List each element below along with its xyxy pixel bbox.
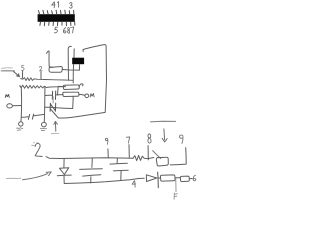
component box B2 bbox=[160, 175, 175, 181]
IC U1 bottom pin ticks bbox=[40, 22, 75, 26]
wire vertical A with hook (from y48 to row1) bbox=[68, 46, 71, 80]
capacitor C4 bottom plate bbox=[83, 175, 101, 176]
zener diode D1 triangle down bbox=[60, 168, 69, 175]
resistor R1 zigzag row1 and wire to vertical x73 bbox=[21, 78, 73, 81]
vertical from X1 lead down to base wire bbox=[72, 96, 75, 108]
wire from RV1 right to node under black component bbox=[62, 69, 79, 72]
tiny scribble text top-left bbox=[2, 67, 13, 70]
capacitor C2 tilted plates bbox=[28, 114, 33, 119]
overline segment bbox=[151, 120, 176, 123]
resistor R4 box lower bbox=[63, 92, 79, 96]
wire B3 to label 6 bbox=[189, 178, 192, 180]
down arrow annotation bbox=[162, 129, 167, 142]
input arrow to resistor R-row1 bbox=[13, 71, 19, 76]
lead from label 5 to row1 bbox=[21, 71, 23, 78]
emitter wire Q1 to loop bottom bbox=[50, 109, 58, 118]
transistor Q1 lead from R4 bottom bbox=[52, 97, 54, 103]
squiggle under C2 bbox=[40, 128, 46, 131]
component box B3 bbox=[180, 176, 189, 182]
wire vertical B to cap left plate bbox=[22, 116, 28, 119]
pin number 8 bottom (hand-drawn digit 8) bbox=[68, 28, 70, 34]
curved arrow to zener D1 bbox=[23, 172, 52, 180]
label M (left motor) bbox=[5, 95, 9, 98]
pin label 9 left (hand-drawn digit 9) bbox=[105, 138, 108, 144]
wire short vertical to black component top bbox=[73, 49, 75, 58]
top rail wire bbox=[46, 157, 133, 159]
curl from R3 right end bbox=[79, 84, 83, 87]
component box B1 bbox=[156, 157, 168, 166]
node 1 riser (flag) into box RV1 bbox=[47, 51, 53, 67]
resistor R5 zigzag in top rail bbox=[133, 155, 154, 160]
resistor R2 zigzag row2 bbox=[20, 85, 66, 88]
capacitor C3 plates (horizontal, near boxes) bbox=[52, 91, 55, 99]
lead from X1 bottom right to wire end bbox=[78, 64, 80, 70]
pin label 7 (hand-drawn digit 7) bbox=[126, 137, 129, 143]
terminal circle M left bbox=[7, 104, 13, 108]
wire vertical C area to C3 left bbox=[45, 94, 52, 96]
capacitor C4 stem to bottom rail bbox=[90, 177, 92, 183]
IC U1 top pin ticks bbox=[39, 10, 74, 14]
pin number 3 top (hand-drawn digit 3) bbox=[70, 3, 73, 9]
capacitor C5 bottom plate bbox=[114, 169, 129, 172]
up arrow annotation bbox=[54, 121, 57, 131]
lead from 9 to rail bbox=[107, 149, 109, 158]
IC U1 black bar body bbox=[38, 14, 75, 22]
component X1 black rectangle bbox=[72, 58, 84, 64]
zener diode D1 cathode bar bbox=[57, 174, 71, 177]
pin label 9 right (hand-drawn digit 9) bbox=[180, 135, 183, 143]
label 2 (hand-drawn digit 2) bbox=[39, 66, 42, 71]
label 5 (hand-drawn digit 5) bbox=[22, 65, 25, 70]
capacitor C5 top plate bbox=[110, 162, 127, 165]
squiggle under C1 bbox=[17, 128, 23, 130]
wire M to vertical B bbox=[12, 105, 21, 107]
tiny scribble text bottom-left bbox=[6, 177, 21, 180]
label 6 right end (hand-drawn digit 6) bbox=[193, 175, 196, 181]
terminal circle C2 bbox=[42, 122, 47, 126]
label F under stem bbox=[174, 193, 177, 199]
label M right motor bbox=[90, 94, 94, 98]
wire vertical B (row2 left end down to terminal) bbox=[20, 86, 21, 122]
wire B2 to B3 with stem down bbox=[175, 177, 180, 179]
bottom rail wire bbox=[64, 178, 144, 183]
diode D2 triangle bbox=[146, 175, 156, 182]
pin label 8 (hand-drawn digit 8) bbox=[148, 134, 151, 143]
pin number 6 bottom (hand-drawn digit 6) bbox=[63, 28, 66, 33]
stem D1 to bottom rail bbox=[63, 176, 65, 184]
pin number 5 bottom (hand-drawn digit 5) bbox=[54, 27, 57, 33]
big loop rectangle (top edge, right edge, bottom edge) bbox=[59, 45, 107, 118]
capacitor C4 top plate bbox=[80, 168, 103, 171]
handwritten big 2 bbox=[35, 143, 42, 156]
capacitor C5 stem to bottom rail bbox=[120, 171, 122, 180]
resistor R3 box upper bbox=[63, 85, 79, 90]
stem down from wire bbox=[175, 179, 177, 192]
wire R4 right to motor M2 circle bbox=[79, 94, 85, 95]
transistor Q1 N-shape bbox=[50, 103, 56, 111]
wire cap right plate to vertical C bbox=[34, 114, 45, 115]
resistor RV1 tilted box bbox=[49, 67, 62, 73]
diode D2 cathode bar (long) bbox=[157, 172, 160, 188]
lead from 8 to rail bbox=[147, 146, 149, 160]
pin number 7 bottom (hand-drawn digit 7) bbox=[71, 27, 74, 33]
terminal circle M2 bbox=[85, 94, 89, 98]
wire vertical C down to terminal C2 bbox=[43, 87, 46, 121]
lead from 7 to rail bbox=[128, 145, 130, 158]
faint marks above 2 bbox=[33, 141, 38, 144]
label 4 bottom rail (hand-drawn digit 4) bbox=[132, 181, 136, 188]
wire C3 right to box R3 left bbox=[56, 94, 63, 96]
diagonal into box B1 bbox=[153, 151, 161, 159]
terminal circle C1 bbox=[19, 122, 23, 126]
left bracket joining R3 and R4 bbox=[58, 86, 64, 95]
lead from X1 bottom left going down bbox=[72, 64, 74, 83]
pin number 4 top (hand-drawn digit 4) bbox=[52, 2, 56, 8]
zener diode D1 stem from rail bbox=[63, 159, 65, 168]
faint dash below bbox=[32, 144, 35, 146]
capacitor C5 stem from top rail bbox=[116, 158, 118, 163]
underline below scribble bbox=[1, 70, 14, 72]
capacitor C4 stem from top rail bbox=[91, 158, 93, 167]
wire D2 to box B2 bbox=[158, 177, 160, 179]
riser from label 9 down and wire to B1 right bbox=[170, 148, 186, 165]
base wire through Q1 bbox=[45, 107, 73, 108]
tiny scribble text under arrow bbox=[51, 132, 59, 135]
pin number 1 top (hand-drawn digit 1) bbox=[58, 2, 59, 8]
lead from label 2 to row1 bbox=[40, 72, 42, 79]
